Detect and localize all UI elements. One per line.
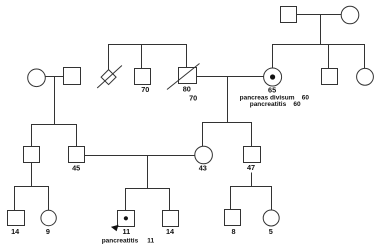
svg-text:pancreatitis 11: pancreatitis 11 xyxy=(102,238,155,245)
svg-text:14: 14 xyxy=(11,227,20,236)
circle IV "9" xyxy=(41,210,56,225)
square III-1 xyxy=(24,147,40,163)
square IV "14" middle xyxy=(163,211,179,227)
square I-1 grandfather xyxy=(281,7,297,23)
wire drop to square 70 xyxy=(141,45,143,69)
square II-4 xyxy=(322,69,338,85)
square IV "8" xyxy=(225,210,241,226)
square II "80" deceased xyxy=(179,68,197,84)
svg-text:5: 5 xyxy=(269,227,273,236)
wire sibship gen II right xyxy=(273,45,365,69)
svg-text:70: 70 xyxy=(189,93,197,102)
wire drop to II square xyxy=(328,45,330,69)
circle II-3 "65" carrier xyxy=(264,68,282,86)
svg-text:70: 70 xyxy=(141,85,149,94)
svg-text:47: 47 xyxy=(247,163,255,172)
wire drop from 47 xyxy=(251,173,253,187)
svg-text:45: 45 xyxy=(72,164,80,173)
square II "70" xyxy=(135,69,151,85)
wire drop from 45/43 marriage xyxy=(147,156,149,189)
wire marriage I-1/I-2 xyxy=(297,14,342,16)
circle I-2 grandmother xyxy=(341,6,359,24)
svg-text:14: 14 xyxy=(166,227,175,236)
wire sibship gen IV right xyxy=(231,187,272,211)
wire drop from III-1 xyxy=(31,163,33,187)
square IV "11" proband xyxy=(118,211,135,227)
slash through square 80 xyxy=(167,64,200,90)
wire marriage left couple xyxy=(46,76,64,78)
wire sibship gen IV left xyxy=(15,187,49,211)
svg-text:9: 9 xyxy=(46,227,50,236)
svg-text:pancreatitis 60: pancreatitis 60 xyxy=(250,101,301,108)
circle II-left wife xyxy=(28,69,46,87)
wire sibship gen II left xyxy=(109,45,187,70)
svg-text:65: 65 xyxy=(268,86,276,95)
circle III-3 "43" xyxy=(195,146,213,164)
wire drop from left couple xyxy=(54,77,56,125)
proband arrow xyxy=(111,225,119,232)
square III-4 "47" xyxy=(244,147,261,163)
slash through diamond xyxy=(97,66,122,89)
wire sibship gen IV middle xyxy=(126,189,170,211)
wire drop from I marriage xyxy=(320,15,322,45)
wire marriage 80/65 xyxy=(197,76,264,78)
circle II-5 xyxy=(357,68,374,85)
circle IV "5" xyxy=(263,210,279,226)
wire marriage 45/43 xyxy=(85,155,195,157)
diamond (deceased, unknown sex) xyxy=(101,70,116,85)
svg-text:43: 43 xyxy=(199,164,207,173)
square III-2 "45" xyxy=(69,147,85,163)
svg-text:80: 80 xyxy=(183,85,191,94)
square IV "14" left xyxy=(8,211,25,226)
wire drop from 80/65 marriage xyxy=(227,77,229,123)
square II-left husband xyxy=(64,68,81,85)
svg-text:11: 11 xyxy=(123,227,131,236)
wire sibship gen III left xyxy=(32,125,77,147)
wire sibship 43,47 xyxy=(203,123,252,147)
svg-text:8: 8 xyxy=(231,227,235,236)
